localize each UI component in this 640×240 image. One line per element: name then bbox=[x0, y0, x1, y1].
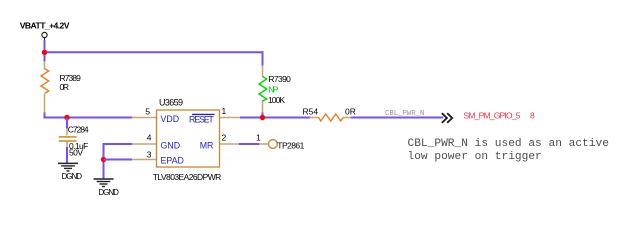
capacitor C7284 leads bbox=[66, 128, 68, 148]
pin stub EPAD (pin 3) bbox=[132, 159, 157, 161]
resistor R7390 zigzag (green, NP) bbox=[259, 77, 267, 102]
off-page connector chevrons bbox=[442, 113, 452, 123]
svg-text:100K: 100K bbox=[268, 95, 285, 105]
pin stub GND (pin 4) bbox=[132, 143, 157, 145]
svg-text:NP: NP bbox=[268, 84, 278, 94]
svg-text:0R: 0R bbox=[60, 82, 70, 92]
wire vertical from power port to top rail bbox=[44, 40, 46, 62]
junction dot capacitor branch bbox=[64, 115, 69, 120]
svg-text:VDD: VDD bbox=[161, 114, 180, 124]
svg-text:RESET: RESET bbox=[189, 114, 214, 124]
wire corner from R7389 to VDD rail bbox=[45, 113, 133, 118]
test point TP2861 circle bbox=[269, 140, 278, 149]
svg-text:C7284: C7284 bbox=[68, 124, 89, 134]
svg-text:TLV803EA26DPWR: TLV803EA26DPWR bbox=[153, 172, 222, 182]
junction dot EPAD bbox=[101, 157, 106, 162]
svg-text:U3659: U3659 bbox=[159, 98, 183, 108]
wire MR to test point bbox=[239, 143, 260, 145]
wire down right side to R7390 bbox=[262, 51, 264, 66]
wire below R7390 to rail bbox=[262, 113, 264, 119]
wire vertical GND/EPAD down bbox=[103, 143, 105, 178]
test point lead bbox=[259, 143, 268, 145]
svg-text:R7390: R7390 bbox=[268, 74, 291, 84]
resistor R54 zigzag bbox=[319, 114, 344, 121]
pin stub MR (pin 2) bbox=[220, 143, 240, 145]
svg-text:GND: GND bbox=[161, 140, 181, 150]
resistor R7389 leads bbox=[44, 61, 46, 113]
svg-text:2: 2 bbox=[222, 132, 227, 142]
svg-text:DGND: DGND bbox=[62, 172, 83, 181]
svg-text:5: 5 bbox=[145, 106, 150, 116]
svg-text:CBL_PWR_N is used as an active: CBL_PWR_N is used as an active bbox=[408, 138, 609, 150]
svg-text:1: 1 bbox=[222, 106, 227, 116]
svg-text:8: 8 bbox=[530, 110, 535, 120]
wire RESET to R54 bbox=[240, 117, 311, 119]
pin name RESET (with overline) bbox=[189, 114, 215, 124]
wire top rail horizontal bbox=[44, 51, 264, 53]
resistor R7390 leads bbox=[262, 65, 264, 114]
ground DGND (left) bbox=[58, 163, 78, 171]
svg-text:VBATT_+4.2V: VBATT_+4.2V bbox=[20, 20, 70, 30]
svg-text:0R: 0R bbox=[345, 107, 356, 117]
svg-text:MR: MR bbox=[200, 140, 214, 150]
junction dot at VBATT rail bbox=[42, 50, 47, 55]
wire capacitor branch down bbox=[66, 118, 68, 130]
svg-text:50V: 50V bbox=[69, 148, 83, 158]
svg-text:4: 4 bbox=[147, 132, 152, 142]
wire R54 to off-page connector bbox=[351, 117, 443, 119]
wire EPAD pin bbox=[104, 159, 133, 161]
svg-text:R54: R54 bbox=[303, 107, 319, 117]
svg-text:DGND: DGND bbox=[98, 188, 119, 197]
wire GND pin to vertical bbox=[104, 143, 133, 145]
svg-text:TP2861: TP2861 bbox=[277, 141, 304, 151]
svg-text:low power on trigger: low power on trigger bbox=[408, 151, 542, 163]
ground DGND (right) bbox=[94, 179, 114, 187]
capacitor C7284 plates bbox=[59, 137, 77, 141]
wire capacitor to DGND bbox=[66, 147, 68, 163]
junction dot R7390/rail bbox=[260, 115, 265, 120]
power port circle bbox=[42, 32, 47, 40]
pin stub RESET (pin 1) bbox=[220, 117, 241, 119]
op-amp/supervisor U3659 body bbox=[157, 110, 220, 167]
svg-text:3: 3 bbox=[147, 150, 152, 160]
svg-text:SM_PM_GPIO_5: SM_PM_GPIO_5 bbox=[464, 110, 521, 120]
svg-text:CBL_PWR_N: CBL_PWR_N bbox=[385, 110, 424, 118]
resistor R7389 zigzag bbox=[41, 69, 49, 94]
svg-text:EPAD: EPAD bbox=[161, 155, 184, 165]
svg-text:1: 1 bbox=[256, 133, 261, 143]
resistor R54 leads bbox=[310, 117, 353, 119]
pin stub VDD (pin 5) bbox=[132, 117, 157, 119]
